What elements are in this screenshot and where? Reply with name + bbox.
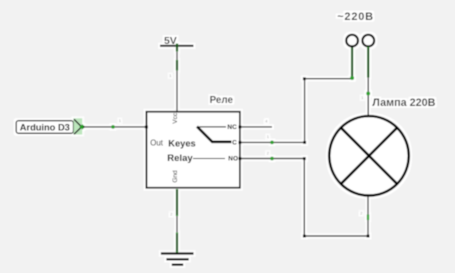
svg-text:Gnd: Gnd <box>172 170 179 183</box>
svg-text:Arduino D3: Arduino D3 <box>20 123 70 133</box>
power symbol 5V <box>160 35 194 47</box>
svg-text:NC: NC <box>227 124 237 131</box>
svg-text:Лампа 220В: Лампа 220В <box>372 97 435 109</box>
AC plug ~220V <box>337 11 374 47</box>
svg-text:Out: Out <box>150 138 163 147</box>
svg-text:Relay: Relay <box>167 153 193 164</box>
wire: relay NO pin to bus <box>239 151 305 161</box>
relay contact symbol (SPDT arm) <box>199 126 226 128</box>
pin NC stub wire <box>239 119 273 129</box>
relay module U1 (Keyes Relay) body <box>146 95 240 188</box>
svg-text:Keyes: Keyes <box>168 139 195 149</box>
ground symbol <box>161 254 194 265</box>
lamp LA1 (Лампа 220В) <box>329 97 435 195</box>
wire: relay Gnd pin to ground <box>170 189 177 253</box>
wire: lamp bottom to relay NO bus <box>303 157 370 237</box>
wire: bus from C pin up to AC plug left <box>303 47 354 144</box>
wire: 5V supply to relay Vcc pin <box>169 44 177 113</box>
wire: relay C pin to bus <box>239 134 305 144</box>
wire: AC plug right to lamp top <box>361 47 370 117</box>
svg-text:~220В: ~220В <box>337 11 374 23</box>
svg-text:C: C <box>232 140 237 147</box>
net label Arduino D3 <box>16 118 85 134</box>
svg-text:NO: NO <box>228 155 238 162</box>
svg-text:Реле: Реле <box>210 95 234 106</box>
wire: Arduino D3 to relay Out pin <box>83 118 148 129</box>
svg-text:Vcc: Vcc <box>172 112 179 124</box>
